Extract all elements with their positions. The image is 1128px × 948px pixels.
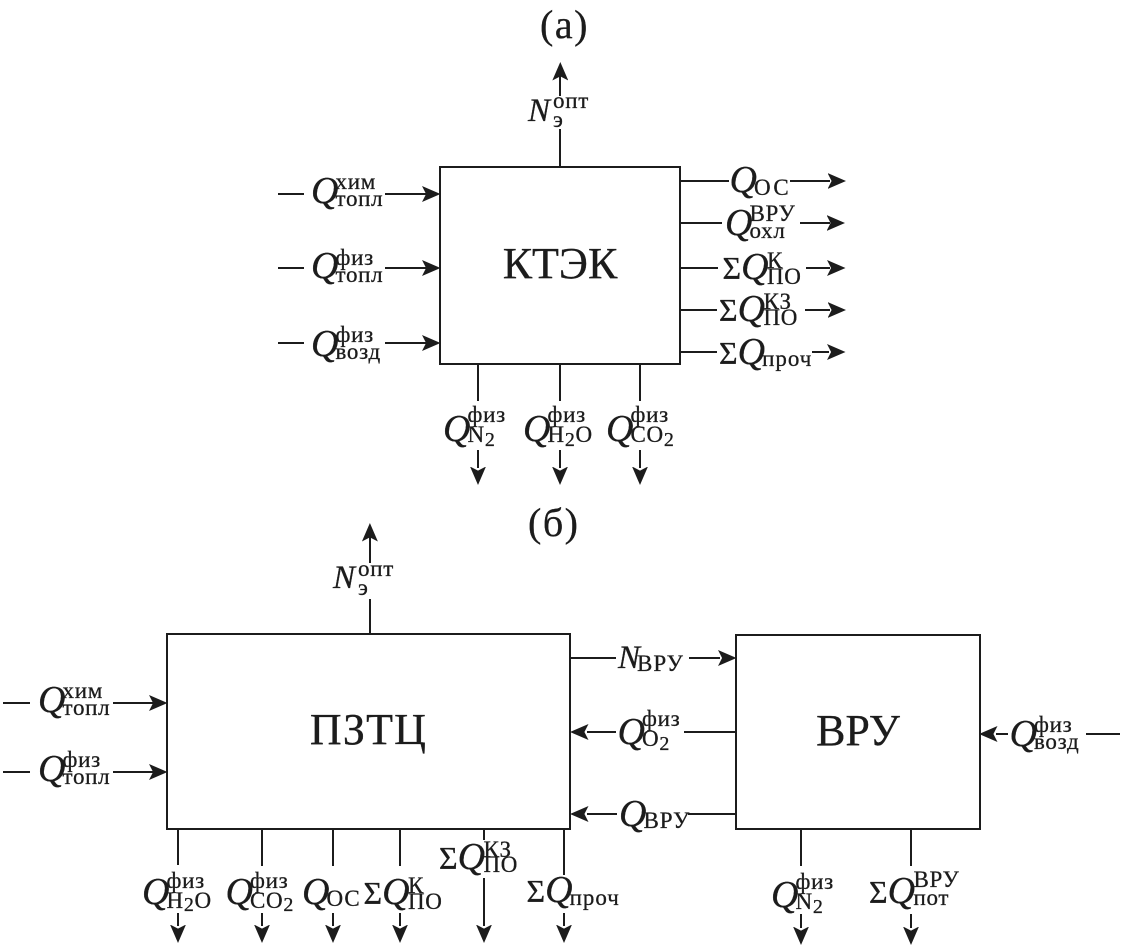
wire into box row2 <box>385 267 426 269</box>
label Q_возд^физ (б) <box>1010 715 1037 753</box>
arrowhead row3 <box>422 335 441 351</box>
arrowhead down col1 (a) <box>470 467 486 486</box>
bottom col3 wire 2 (a) <box>639 450 641 468</box>
mid row1 wire from ПЗТЦ <box>569 657 616 659</box>
label Q_H2O^физ (б) <box>142 873 169 911</box>
arrowhead out row5 <box>827 344 846 360</box>
wire up segment below label (б) <box>369 599 371 633</box>
ПЗТЦ bottom col6 wire 2 <box>563 913 565 926</box>
arrowhead down ВРУ col1 <box>793 927 809 946</box>
box КТЭК <box>439 166 681 365</box>
label Q_топл^хим (a) <box>311 172 338 210</box>
label Q_O2^физ <box>618 713 645 751</box>
wire up segment above label (б) <box>369 537 371 563</box>
input row 2 dash <box>278 267 304 269</box>
wire into box row3 <box>385 342 426 344</box>
output row 5 wire from box <box>679 351 717 353</box>
wire into ПЗТЦ row2 <box>113 771 153 773</box>
ПЗТЦ bottom col5 wire <box>483 830 485 840</box>
ПЗТЦ bottom col4 wire <box>399 830 401 866</box>
label Q_охл^ВРУ <box>725 204 752 242</box>
arrowhead down ВРУ col2 <box>903 927 919 946</box>
ПЗТЦ bottom col1 wire 2 <box>177 913 179 926</box>
label Q_топл^хим (б) <box>38 681 65 719</box>
wire up segment below label (a) <box>559 129 561 166</box>
label Q_CO2^физ (a) <box>606 410 633 448</box>
arrowhead out row4 <box>828 302 847 318</box>
output row 1 wire from box <box>679 180 729 182</box>
bottom col1 wire 2 (a) <box>477 450 479 468</box>
ПЗТЦ bottom col3 wire <box>332 830 334 866</box>
bottom col2 wire 2 (a) <box>559 450 561 468</box>
label Q_топл^физ (a) <box>311 247 338 285</box>
label Q_CO2^физ (б) <box>226 873 253 911</box>
ПЗТЦ bottom col4 wire 2 <box>399 913 401 926</box>
bottom col2 wire (a) <box>559 365 561 401</box>
label ΣQ_ПО^КЗ <box>719 290 765 328</box>
label Q_ВРУ <box>619 795 690 833</box>
arrowhead row1 <box>422 186 441 202</box>
label ΣQ_ПО^К (б) <box>364 873 410 911</box>
arrowhead into ПЗТЦ row2 <box>570 724 589 740</box>
label N_ВРУ <box>618 642 684 675</box>
output row 4 wire from box <box>679 309 717 311</box>
arrowhead down б col5 <box>476 925 492 944</box>
arrowhead down б col6 <box>556 925 572 944</box>
wire into box row1 <box>385 193 426 195</box>
arrowhead up N out of PZTC <box>362 523 378 542</box>
right input wire <box>996 733 1008 735</box>
box ПЗТЦ <box>166 633 571 830</box>
arrowhead down б col2 <box>254 925 270 944</box>
б input row 2 dash <box>3 771 30 773</box>
input row 1 dash <box>278 193 304 195</box>
label ΣQ_проч (a) <box>719 333 812 371</box>
б input row 1 dash <box>3 702 30 704</box>
ПЗТЦ bottom col2 wire 2 <box>261 913 263 926</box>
mid row2 wire <box>587 731 616 733</box>
arrowhead up N out of KTEK <box>552 62 568 81</box>
arrowhead down б col1 <box>170 925 186 944</box>
label ΣQ_ПО^К <box>723 248 769 286</box>
label Q_возд^физ (a) <box>311 325 338 363</box>
arrowhead down col2 (a) <box>552 467 568 486</box>
output row 2 wire from box <box>679 222 722 224</box>
ПЗТЦ bottom col6 wire <box>563 830 565 875</box>
arrowhead into ПЗТЦ row3 <box>570 806 589 822</box>
ПЗТЦ bottom col3 wire 2 <box>332 913 334 926</box>
label Q_H2O^физ (a) <box>523 410 550 448</box>
arrowhead down б col4 <box>392 925 408 944</box>
arrowhead down б col3 <box>325 925 341 944</box>
caption (б) <box>528 503 580 543</box>
label ΣQ_пот^ВРУ <box>869 872 915 910</box>
label N_э^опт (a) <box>528 95 550 128</box>
mid row1 wire to ВРУ <box>689 657 720 659</box>
label ΣQ_проч (б) <box>527 871 620 909</box>
ПЗТЦ bottom col1 wire <box>177 830 179 865</box>
label Q_топл^физ (б) <box>38 750 65 788</box>
ВРУ bottom col1 wire 2 <box>800 914 802 928</box>
bottom col3 wire (a) <box>639 365 641 401</box>
arrowhead into ВРУ <box>718 650 737 666</box>
label Q_ОС (a) <box>730 161 792 199</box>
wire into ПЗТЦ row1 <box>113 702 153 704</box>
caption (a) <box>540 5 589 45</box>
bottom col1 wire (a) <box>477 365 479 401</box>
output row4 wire to arrow <box>805 309 830 311</box>
mid row2 wire from ВРУ <box>684 731 737 733</box>
label Q_ОС (б) <box>302 873 361 911</box>
ПЗТЦ bottom col5 wire 2 <box>483 878 485 926</box>
arrowhead out row1 <box>828 173 847 189</box>
label Q_N2^физ (б) <box>771 876 798 914</box>
wire up segment above label (a) <box>559 76 561 96</box>
output row5 wire to arrow <box>812 351 829 353</box>
arrowhead б row2 <box>149 764 168 780</box>
arrowhead out row3 <box>827 260 846 276</box>
arrowhead б row1 <box>149 695 168 711</box>
label N_э^опт (б) <box>333 562 355 595</box>
label Q_N2^физ (a) <box>443 410 470 448</box>
output row1 wire to arrow <box>790 180 830 182</box>
output row 3 wire from box <box>679 267 718 269</box>
arrowhead row2 <box>422 260 441 276</box>
arrowhead out row2 <box>827 215 846 231</box>
arrowhead down col3 (a) <box>632 467 648 486</box>
arrowhead into ВРУ right <box>979 726 998 742</box>
ВРУ bottom col2 wire 2 <box>910 914 912 928</box>
mid row3 wire from ВРУ <box>688 813 737 815</box>
input row 3 dash <box>278 342 304 344</box>
right input dash <box>1086 733 1120 735</box>
ПЗТЦ bottom col2 wire <box>261 830 263 866</box>
label ΣQ_ПО^КЗ (б) <box>439 838 485 876</box>
output row3 wire to arrow <box>806 267 830 269</box>
output row2 wire to arrow <box>800 222 830 224</box>
mid row3 wire <box>587 813 617 815</box>
ВРУ bottom col1 wire <box>800 830 802 866</box>
box ВРУ <box>735 634 981 830</box>
ВРУ bottom col2 wire <box>910 830 912 866</box>
